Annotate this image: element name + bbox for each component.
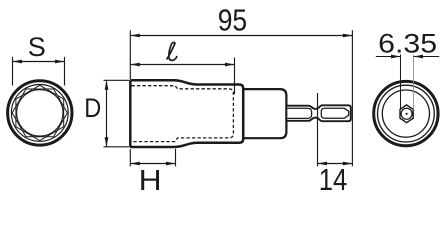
l arrowheads bbox=[130, 63, 140, 67]
14 extension line bbox=[318, 93, 353, 166]
l dimension line bbox=[130, 64, 234, 66]
S dimension line bbox=[13, 61, 65, 63]
hex shank with groove bbox=[286, 105, 350, 121]
D dimension line bbox=[106, 81, 108, 147]
6.35 dimension lead lines bbox=[376, 56, 401, 58]
95 arrowheads bbox=[130, 34, 140, 38]
14 dimension line bbox=[318, 163, 353, 165]
svg-text:S: S bbox=[28, 32, 46, 62]
svg-text:95: 95 bbox=[218, 4, 248, 38]
shank inner hex-flat lines segment 1 bbox=[287, 108, 348, 118]
hidden hex hole (dashed) bbox=[132, 86, 234, 142]
95 extension lines bbox=[130, 30, 352, 166]
H dimension line bbox=[130, 163, 175, 165]
circle 2 bbox=[378, 85, 435, 142]
14 arrowheads bbox=[318, 162, 328, 166]
collar bbox=[243, 89, 286, 138]
outer circle bbox=[374, 81, 438, 145]
hexagon A flat-top bbox=[12, 89, 67, 137]
center dot bbox=[406, 113, 408, 115]
circle 2 bbox=[11, 85, 68, 142]
95 dimension line bbox=[130, 35, 352, 37]
l (ell) extension line right bbox=[130, 58, 234, 95]
D extension lines bbox=[104, 80, 130, 147]
svg-text:H: H bbox=[139, 165, 162, 197]
label l (script ell) bbox=[167, 42, 177, 60]
H arrowheads bbox=[130, 162, 140, 166]
shank inner contour segment 2 bbox=[321, 108, 348, 118]
S arrowheads bbox=[13, 60, 23, 64]
D arrowheads bbox=[105, 80, 109, 90]
svg-text:14: 14 bbox=[319, 163, 348, 197]
outer circle bbox=[8, 81, 72, 145]
svg-text:6.35: 6.35 bbox=[378, 28, 437, 58]
inner circle of hex bbox=[401, 108, 412, 119]
hexagon B pointy-top bbox=[16, 85, 64, 140]
H extension lines bbox=[130, 149, 175, 167]
svg-text:D: D bbox=[84, 93, 101, 123]
circle 3 bbox=[382, 90, 429, 137]
S extension lines bbox=[13, 57, 65, 86]
socket body bbox=[130, 80, 243, 147]
6.35 extension lines bbox=[376, 55, 439, 110]
hex shank end bbox=[400, 105, 413, 123]
6.35 arrowheads bbox=[391, 55, 401, 59]
circle 3 bbox=[17, 90, 63, 136]
